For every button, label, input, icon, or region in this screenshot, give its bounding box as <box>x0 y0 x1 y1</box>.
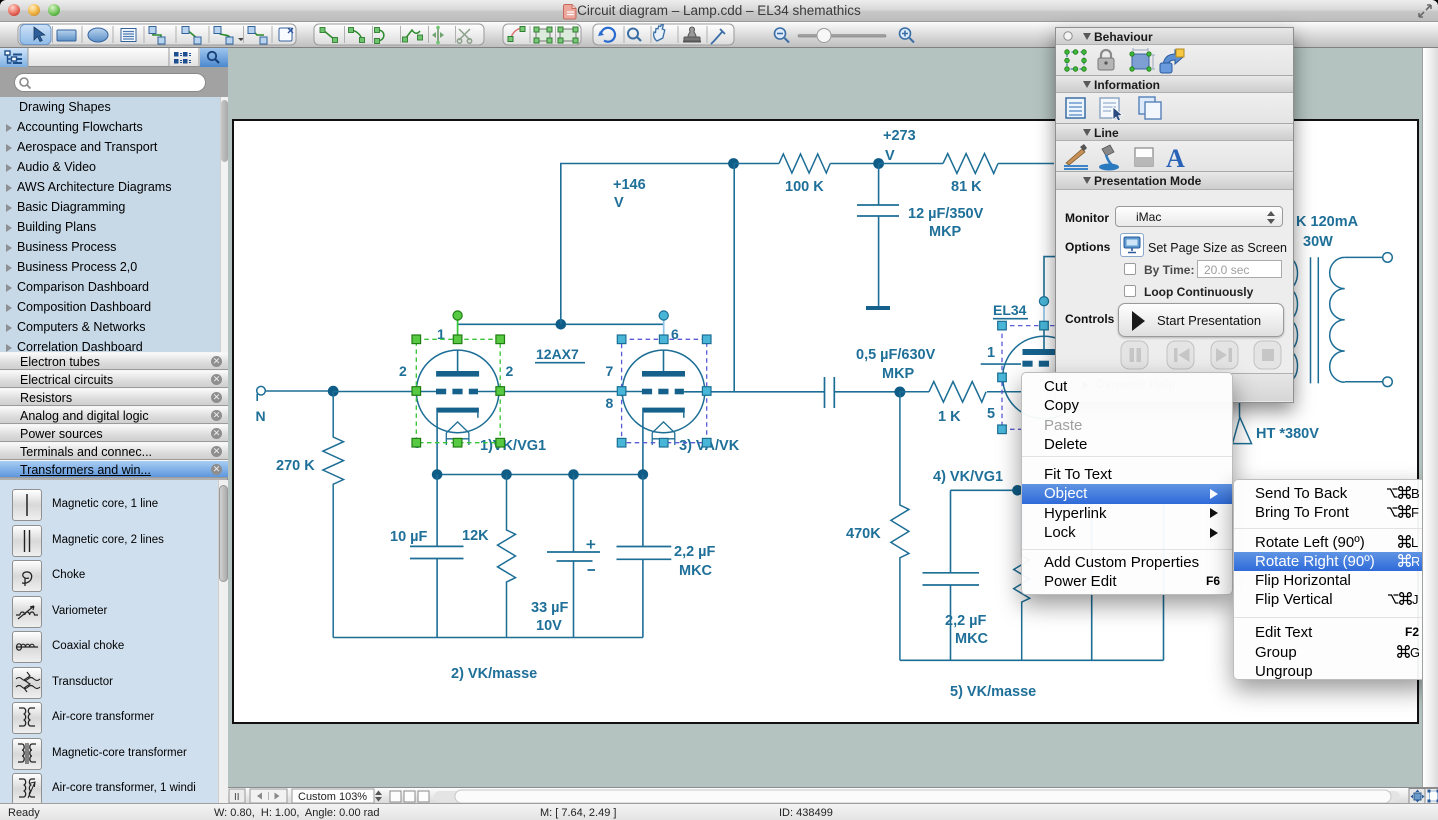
capacitor C6 2,2uF MKC (stage 1) <box>617 475 672 638</box>
svg-text:MKP: MKP <box>882 366 915 382</box>
wire V1b grid row to coupling cap <box>684 391 825 393</box>
svg-text:2: 2 <box>506 363 514 379</box>
wire R2 to node D <box>830 163 880 165</box>
canvas + page <box>228 48 1422 787</box>
svg-text:MKC: MKC <box>955 631 989 647</box>
svg-text:F: F <box>1411 505 1419 519</box>
wire anode link V1a-V1b <box>458 323 664 325</box>
svg-text:12AX7: 12AX7 <box>536 346 579 362</box>
node B junction <box>556 319 567 330</box>
svg-text:10 µF: 10 µF <box>390 529 428 545</box>
wire node A to V1a grid <box>333 391 436 393</box>
svg-text:R: R <box>1411 554 1419 568</box>
svg-text:8: 8 <box>606 395 614 411</box>
resistor R2 100 K <box>779 154 830 173</box>
node A junction <box>328 386 339 397</box>
scroll / status <box>1422 48 1438 787</box>
transformer T1 core <box>1311 257 1319 383</box>
wire lower ground bus <box>333 637 643 639</box>
group D container <box>593 24 734 45</box>
node F junction <box>1012 485 1023 496</box>
capacitor C2 0,5uF/630V coupling <box>825 377 900 408</box>
svg-text:1: 1 <box>987 345 995 361</box>
svg-text:7: 7 <box>606 363 614 379</box>
svg-text:5) VK/masse: 5) VK/masse <box>950 684 1036 700</box>
node C junction <box>728 158 739 169</box>
svg-text:V: V <box>885 148 895 164</box>
group B container <box>314 24 484 45</box>
sidebar <box>0 48 228 803</box>
node D junction <box>873 158 884 169</box>
wire stage2 right vertical <box>1163 490 1165 660</box>
wire U1 anode up <box>1044 257 1055 298</box>
capacitor C4 10uF <box>410 475 464 638</box>
transformer T1 primary <box>1288 258 1298 382</box>
submenu <box>1233 479 1432 680</box>
zoom controls <box>775 28 786 39</box>
wire V1a to V1b <box>478 391 642 393</box>
wire input to node A <box>265 390 333 392</box>
svg-text:2: 2 <box>399 363 407 379</box>
svg-text:J: J <box>1412 592 1419 606</box>
wire V1a cathode down <box>436 413 438 475</box>
pentode U1 EL34 <box>981 302 1086 422</box>
ground <box>866 306 890 310</box>
svg-text:II: II <box>234 792 240 803</box>
svg-text:1)VK/VG1: 1)VK/VG1 <box>480 438 546 454</box>
selection box U1 EL34 (blue) <box>998 297 1086 434</box>
svg-text:4) VK/VG1: 4) VK/VG1 <box>933 469 1003 485</box>
svg-text:270 K: 270 K <box>276 458 315 474</box>
svg-text:2) VK/masse: 2) VK/masse <box>451 666 537 682</box>
selection box V1b (blue) <box>617 311 711 447</box>
resistor R1 270 K <box>323 391 344 638</box>
HT terminal triangle <box>1233 402 1252 444</box>
node E junction <box>894 387 905 398</box>
selection box V1a (green) <box>412 311 505 447</box>
svg-text:30W: 30W <box>1303 234 1333 250</box>
svg-text:470K: 470K <box>846 526 881 542</box>
svg-text:81 K: 81 K <box>951 179 982 195</box>
triode V1a (12AX7 a) <box>416 350 499 445</box>
svg-text:100 K: 100 K <box>785 179 824 195</box>
svg-text:A: A <box>1166 144 1185 172</box>
resistor R5 470K <box>891 392 909 660</box>
svg-text:K 120mA: K 120mA <box>1296 214 1359 230</box>
context menu <box>1021 372 1233 595</box>
svg-text:2,2 µF: 2,2 µF <box>945 613 987 629</box>
group C container <box>503 24 581 45</box>
svg-text:+146: +146 <box>613 177 646 193</box>
svg-text:1 K: 1 K <box>938 409 961 425</box>
svg-text:MKP: MKP <box>929 224 962 240</box>
wire upper cathode bus <box>437 474 643 476</box>
floating palette <box>1055 27 1294 403</box>
resistor R3 81 K <box>943 154 998 174</box>
svg-text:33 µF: 33 µF <box>531 600 569 616</box>
svg-text:N: N <box>256 408 266 424</box>
triode V1b (12AX7 b) <box>622 350 705 445</box>
transformer T1 secondary <box>1330 253 1393 387</box>
group A container <box>18 24 296 45</box>
window chrome <box>0 0 1438 22</box>
svg-text:12K: 12K <box>462 528 489 544</box>
wire node C to R2 <box>734 163 780 165</box>
svg-text:0,5 µF/630V: 0,5 µF/630V <box>856 347 936 363</box>
terminal P input <box>257 386 266 401</box>
svg-text:EL34: EL34 <box>993 302 1027 318</box>
wire stage2 vertical (hidden by menu) <box>1091 490 1093 660</box>
wire U1 grid node <box>951 490 1019 573</box>
svg-text:V: V <box>614 195 624 211</box>
svg-text:G: G <box>1410 645 1419 659</box>
svg-text:2,2 µF: 2,2 µF <box>674 544 716 560</box>
wire node D to R3 <box>879 163 943 165</box>
junction dots cathode bus <box>432 469 443 480</box>
capacitor C3 2,2uF MKC (stage 2) <box>923 573 980 661</box>
svg-text:12 µF/350V: 12 µF/350V <box>908 206 984 222</box>
svg-text:B: B <box>1411 486 1419 500</box>
resistor R7 12K <box>498 475 516 638</box>
wire V1b cathode down <box>642 413 644 475</box>
svg-text:MKC: MKC <box>679 563 713 579</box>
capacitor C1 12uF/350V <box>857 164 899 307</box>
svg-text:+273: +273 <box>883 128 916 144</box>
svg-text:Custom 103%: Custom 103% <box>298 791 367 803</box>
wire stage2 ground bus <box>900 659 1164 661</box>
resistor R4 1 K <box>900 382 1021 403</box>
svg-text:10V: 10V <box>536 618 562 634</box>
wire node B up to +146V rail <box>561 164 734 325</box>
svg-text:L: L <box>1411 535 1418 549</box>
svg-text:HT *380V: HT *380V <box>1256 426 1319 442</box>
capacitor C5 33uF electrolytic <box>547 475 600 638</box>
resistor R6 cathode (hidden by menu) <box>1014 490 1030 660</box>
svg-text:5: 5 <box>987 406 995 422</box>
wire node C down to coupling cap <box>733 164 735 392</box>
wire R3 to palette edge <box>998 163 1054 165</box>
